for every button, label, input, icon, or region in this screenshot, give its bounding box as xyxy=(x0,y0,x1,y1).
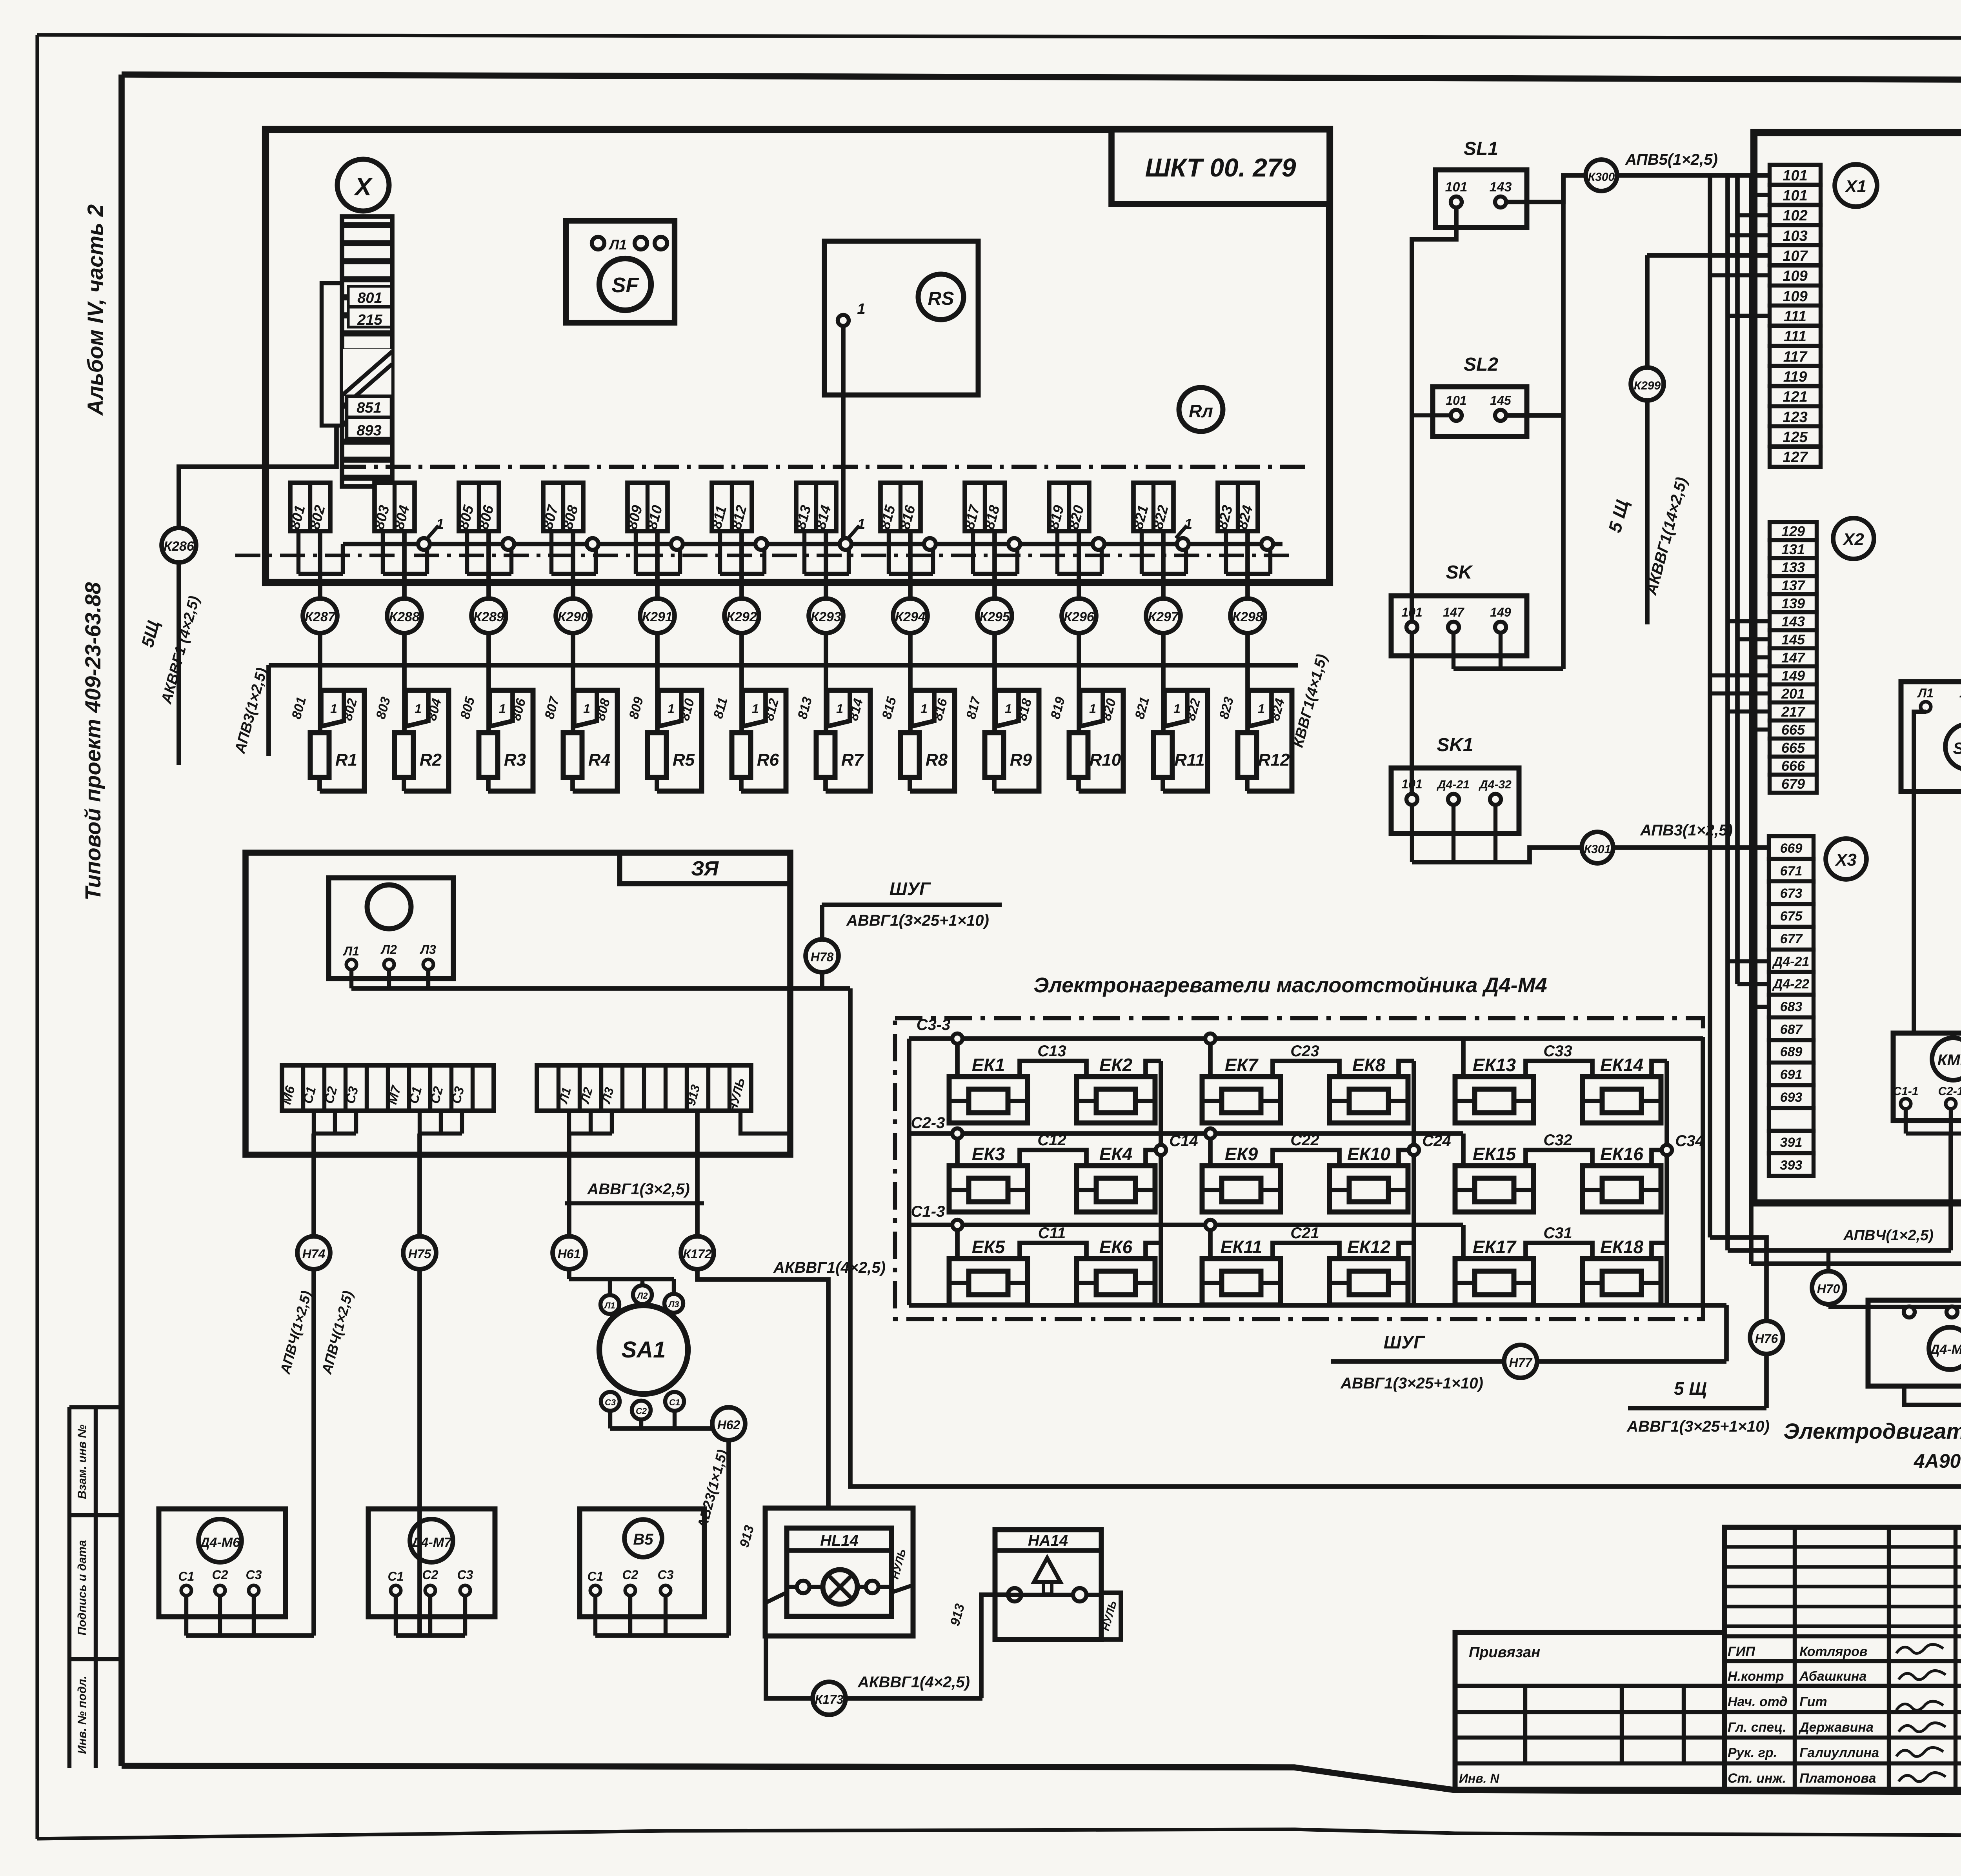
resistor unit R4 box xyxy=(573,690,617,791)
terminal pair 821/822 xyxy=(1133,483,1173,531)
svg-text:Н61: Н61 xyxy=(558,1247,581,1261)
svg-text:5 Щ: 5 Щ xyxy=(1674,1378,1707,1399)
svg-text:149: 149 xyxy=(1490,605,1511,619)
svg-text:С3-3: С3-3 xyxy=(917,1016,951,1034)
resistor R4 xyxy=(563,733,582,777)
svg-text:SL2: SL2 xyxy=(1464,354,1498,375)
svg-text:111: 111 xyxy=(1784,328,1806,345)
star link row 3 group 1 xyxy=(1146,1243,1161,1259)
svg-text:К296: К296 xyxy=(1064,610,1095,624)
svg-text:R12: R12 xyxy=(1258,750,1290,770)
heater input tap EK13 xyxy=(1461,1039,1466,1077)
terminal strip Л1Л2Л3/913/НУЛЬ in ЗЯ xyxy=(537,1065,751,1111)
svg-text:R7: R7 xyxy=(841,750,864,770)
wire pair 821 to relay K297 xyxy=(1161,531,1166,599)
svg-text:669: 669 xyxy=(1780,841,1803,856)
border frame xyxy=(37,35,1961,39)
svg-text:Д4-21: Д4-21 xyxy=(1772,954,1810,969)
star point С14 xyxy=(1159,1061,1163,1305)
svg-text:ЕК15: ЕК15 xyxy=(1473,1144,1517,1164)
heater bus left rail xyxy=(907,1039,911,1305)
wire SL2-145 to rail xyxy=(1506,413,1563,418)
terminal strip X1 xyxy=(1770,165,1821,185)
svg-text:Rл: Rл xyxy=(1189,401,1213,421)
relay RS box xyxy=(824,241,978,395)
resistor unit R2 box xyxy=(404,690,449,791)
svg-text:119: 119 xyxy=(1783,369,1807,385)
svg-text:ЕК5: ЕК5 xyxy=(972,1237,1006,1257)
designator X2 xyxy=(1833,518,1874,559)
svg-text:Л2: Л2 xyxy=(636,1291,648,1301)
terminal pair 801/802 xyxy=(290,483,330,531)
svg-text:Электродвигатели: Электродвигатели xyxy=(1784,1419,1961,1443)
svg-text:893: 893 xyxy=(357,422,381,439)
wire K287 to R1 xyxy=(318,633,322,733)
wires Л strip to Н61 xyxy=(567,1111,571,1134)
cable ШУГ with marker Н77 xyxy=(1331,1359,1726,1364)
svg-text:К300: К300 xyxy=(1588,171,1615,184)
series link С12 xyxy=(1020,1150,1086,1166)
right rail of SL column xyxy=(1561,175,1566,669)
bus of ШКТ terminal row xyxy=(343,542,1282,546)
svg-text:101: 101 xyxy=(1783,167,1807,184)
svg-text:Н70: Н70 xyxy=(1817,1282,1840,1296)
svg-text:Электронагреватели маслоотст: Электронагреватели маслоотстойника Д4-М4 xyxy=(1033,973,1547,997)
svg-text:Типовой проект 409-23-63.88: Типовой проект 409-23-63.88 xyxy=(80,582,105,901)
svg-text:147: 147 xyxy=(1443,605,1465,619)
svg-text:С1: С1 xyxy=(178,1569,195,1583)
marker Н78 xyxy=(820,905,824,988)
terminal pair 811/812 xyxy=(712,483,752,531)
svg-text:ЕК6: ЕК6 xyxy=(1099,1237,1133,1257)
svg-text:АВВГ1(3×2,5): АВВГ1(3×2,5) xyxy=(587,1181,689,1198)
svg-text:127: 127 xyxy=(1783,449,1808,466)
cable marker K286 xyxy=(162,528,196,562)
wire 913 to К172 xyxy=(695,1111,700,1236)
svg-text:R1: R1 xyxy=(335,750,357,770)
svg-text:129: 129 xyxy=(1781,523,1805,539)
svg-text:1: 1 xyxy=(499,702,506,716)
svg-text:Н78: Н78 xyxy=(811,950,834,964)
heater input tap EK3 xyxy=(955,1134,960,1166)
svg-text:125: 125 xyxy=(1783,429,1808,446)
wire pair 803 to relay K288 xyxy=(402,531,407,599)
svg-text:ЗЯ: ЗЯ xyxy=(691,857,719,880)
resistor unit R1 box xyxy=(320,690,364,791)
resistor Rл designator xyxy=(1179,388,1223,431)
svg-text:С2: С2 xyxy=(212,1568,228,1582)
resistor unit R9 box xyxy=(994,690,1039,791)
heater dash-dot boundary xyxy=(895,1018,1703,1319)
svg-text:К289: К289 xyxy=(473,610,504,624)
svg-text:Н75: Н75 xyxy=(408,1247,432,1261)
wire K292 to R6 xyxy=(739,633,744,733)
svg-text:С2-1: С2-1 xyxy=(1938,1085,1961,1098)
label box ЗЯ xyxy=(620,853,790,884)
terminal strip X3 xyxy=(1769,836,1814,859)
svg-text:С13: С13 xyxy=(1037,1043,1066,1060)
switch SA1 top terminals xyxy=(567,1270,571,1279)
relay K289 xyxy=(471,599,506,633)
svg-text:137: 137 xyxy=(1781,577,1806,593)
terminal pair 817/818 xyxy=(965,483,1005,531)
resistor unit R3 box xyxy=(488,690,533,791)
svg-text:683: 683 xyxy=(1780,999,1803,1014)
svg-text:RS: RS xyxy=(928,288,954,309)
svg-text:SK: SK xyxy=(1446,562,1473,583)
heater EK17 xyxy=(1455,1259,1534,1305)
wire K294 to R8 xyxy=(908,633,913,733)
svg-text:С11: С11 xyxy=(1038,1225,1066,1242)
resistor R5 xyxy=(648,733,666,777)
breaker SF xyxy=(599,258,651,310)
bus node 6 xyxy=(840,538,851,550)
heater EK12 xyxy=(1330,1259,1408,1305)
svg-text:X2: X2 xyxy=(1842,530,1864,549)
motor Д4-М2 box xyxy=(1868,1300,1961,1386)
star point С24 xyxy=(1412,1061,1416,1305)
svg-text:С22: С22 xyxy=(1290,1132,1319,1149)
svg-text:Д4-22: Д4-22 xyxy=(1772,977,1810,992)
star link row 3 group 2 xyxy=(1399,1243,1414,1259)
wire SL1-143 to К300 xyxy=(1506,175,1585,202)
terminal strip X2 xyxy=(1770,522,1817,540)
resistor R1 xyxy=(310,733,329,777)
bell НА14 symbol xyxy=(1034,1558,1061,1582)
switch SA1 bottom terminals xyxy=(601,1392,620,1411)
svg-text:SL1: SL1 xyxy=(1464,138,1498,159)
svg-text:143: 143 xyxy=(1781,613,1805,630)
bus node 2 xyxy=(502,538,514,550)
wires to motor Д4-М2 xyxy=(1828,1305,1961,1309)
resistor R6 xyxy=(732,733,751,777)
terminal pair 803/804 xyxy=(375,483,415,531)
svg-text:Гл. спец.: Гл. спец. xyxy=(1728,1720,1786,1735)
svg-text:393: 393 xyxy=(1780,1158,1803,1173)
heater EK16 xyxy=(1583,1166,1661,1212)
svg-text:К301: К301 xyxy=(1584,843,1611,856)
svg-text:851: 851 xyxy=(357,400,381,416)
svg-text:ЕК14: ЕК14 xyxy=(1600,1055,1643,1075)
svg-text:R10: R10 xyxy=(1090,750,1121,770)
terminal pair 821/822 stubs xyxy=(1140,531,1144,574)
bundle stubs to X2 xyxy=(1728,619,1770,623)
heater input tap EK1 xyxy=(955,1039,960,1077)
designator X3 xyxy=(1826,839,1866,879)
device with lamps in ЗЯ xyxy=(329,878,453,979)
terminal pair 815/816 xyxy=(880,483,920,531)
bus node 9 xyxy=(1093,538,1104,550)
wire bus to Н78 and trunk xyxy=(351,986,850,991)
svg-text:С32: С32 xyxy=(1543,1132,1572,1149)
cabinet ШКТ 00.279 enclosure xyxy=(266,129,1330,582)
connector X designator circle xyxy=(337,159,389,211)
svg-text:1: 1 xyxy=(1173,702,1181,716)
svg-text:R6: R6 xyxy=(757,750,779,770)
terminal strip М6/М7 in ЗЯ xyxy=(282,1065,494,1111)
title block attachment table xyxy=(1455,1632,1725,1789)
svg-text:АКВВГ1(4×2,5): АКВВГ1(4×2,5) xyxy=(857,1674,970,1691)
svg-text:SF1: SF1 xyxy=(1953,739,1961,757)
heater input tap EK9 xyxy=(1208,1134,1213,1166)
wire bundle to X strips xyxy=(1708,175,1712,1237)
svg-text:С1: С1 xyxy=(588,1569,604,1583)
cable 5Щ АКВВГ1(4x2,5) going down xyxy=(176,562,181,765)
svg-text:Л1: Л1 xyxy=(604,1301,615,1310)
svg-text:149: 149 xyxy=(1781,668,1805,684)
svg-text:С1: С1 xyxy=(388,1569,404,1583)
svg-text:АВВГ1(3×25+1×10): АВВГ1(3×25+1×10) xyxy=(846,912,989,929)
resistor R12 xyxy=(1238,733,1257,777)
svg-text:679: 679 xyxy=(1781,776,1805,792)
svg-text:Рук. гр.: Рук. гр. xyxy=(1728,1745,1777,1760)
svg-text:665: 665 xyxy=(1781,740,1805,756)
svg-text:К293: К293 xyxy=(811,610,841,624)
heater EK6 xyxy=(1077,1259,1155,1305)
resistor R3 xyxy=(479,733,498,777)
cable 5Щ АКВВГ1(14x2,5) with marker К299 xyxy=(1647,253,1770,258)
svg-text:С1-1: С1-1 xyxy=(1893,1085,1918,1098)
svg-text:677: 677 xyxy=(1780,932,1803,946)
wire 101 rail xyxy=(1412,207,1456,799)
heater EK2 xyxy=(1077,1077,1155,1123)
svg-text:1: 1 xyxy=(920,702,928,716)
cable ШУГ label xyxy=(822,903,1002,907)
svg-text:С34: С34 xyxy=(1675,1132,1704,1150)
terminal pair 801/802 stubs xyxy=(297,531,300,574)
label box ШКТ 00. 279 xyxy=(1111,129,1330,204)
svg-text:1: 1 xyxy=(857,301,865,317)
heater input tap EK17 xyxy=(1461,1225,1466,1259)
wire pair 807 to relay K290 xyxy=(571,531,575,599)
svg-text:Котляров: Котляров xyxy=(1799,1644,1867,1659)
bus node 4 xyxy=(671,538,683,550)
svg-text:215: 215 xyxy=(357,312,382,328)
wire pair 805 to relay K289 xyxy=(486,531,491,599)
wire K289 to R3 xyxy=(486,633,491,733)
svg-text:С24: С24 xyxy=(1422,1132,1451,1150)
svg-text:Д4-М2: Д4-М2 xyxy=(1929,1342,1961,1357)
svg-text:1: 1 xyxy=(415,702,422,716)
svg-text:R4: R4 xyxy=(588,750,610,770)
svg-text:101: 101 xyxy=(1446,393,1466,408)
series link С22 xyxy=(1273,1150,1339,1166)
wire K288 to R2 xyxy=(402,633,407,733)
svg-text:1: 1 xyxy=(330,702,337,716)
svg-text:133: 133 xyxy=(1781,559,1805,575)
svg-text:1: 1 xyxy=(752,702,759,716)
svg-text:АПВ3(1×2,5): АПВ3(1×2,5) xyxy=(1640,822,1733,839)
svg-text:R9: R9 xyxy=(1010,750,1032,770)
svg-text:675: 675 xyxy=(1780,909,1803,924)
resistor unit R12 box xyxy=(1247,690,1292,791)
svg-text:АПВЧ(1×2,5): АПВЧ(1×2,5) xyxy=(1843,1227,1934,1244)
terminal pair 809/810 xyxy=(628,483,668,531)
relay K297 xyxy=(1146,599,1181,633)
relay K294 xyxy=(893,599,928,633)
terminal pair 817/818 stubs xyxy=(971,531,975,574)
svg-text:ШКТ 00. 279: ШКТ 00. 279 xyxy=(1145,153,1296,182)
terminal pair 815/816 stubs xyxy=(887,531,891,574)
svg-text:К287: К287 xyxy=(305,610,336,624)
svg-text:Инв. N: Инв. N xyxy=(1459,1771,1499,1785)
svg-text:201: 201 xyxy=(1781,686,1805,702)
resistor unit R11 box xyxy=(1163,690,1208,791)
wires device to bus xyxy=(349,970,353,988)
series link С32 xyxy=(1526,1150,1592,1166)
cable 5Щ with marker Н76 xyxy=(1710,1237,1766,1408)
wires Д4-М7 to Н75 xyxy=(394,1596,398,1636)
resistor unit R6 box xyxy=(741,690,786,791)
bundle stubs to X1 xyxy=(1751,193,1770,197)
svg-text:ЕК7: ЕК7 xyxy=(1225,1055,1259,1075)
heater EK7 xyxy=(1202,1077,1281,1123)
svg-text:691: 691 xyxy=(1780,1067,1803,1082)
svg-text:С1-3: С1-3 xyxy=(911,1203,945,1220)
terminal row dash-dot boundary xyxy=(296,465,1312,469)
resistor unit R7 box xyxy=(826,690,870,791)
svg-text:1: 1 xyxy=(583,702,590,716)
relay K287 xyxy=(303,599,337,633)
svg-text:Л3: Л3 xyxy=(420,943,436,957)
breaker SF1 box xyxy=(1901,682,1961,792)
sidebar stamp table xyxy=(67,1407,71,1768)
svg-text:К298: К298 xyxy=(1232,610,1263,624)
heater return bus xyxy=(909,1303,1726,1308)
wires SK1 to К301 xyxy=(1410,805,1414,862)
svg-text:147: 147 xyxy=(1781,650,1806,666)
svg-text:1: 1 xyxy=(1089,702,1096,716)
terminal pair 823/824 xyxy=(1218,483,1258,531)
svg-text:С3: С3 xyxy=(658,1568,674,1582)
svg-text:Подпись и дата: Подпись и дата xyxy=(76,1540,89,1635)
heater EK1 xyxy=(949,1077,1028,1123)
wire RS-1 to bus xyxy=(841,326,846,544)
svg-text:HL14: HL14 xyxy=(820,1532,859,1549)
svg-text:Л2: Л2 xyxy=(380,943,397,957)
svg-text:131: 131 xyxy=(1781,541,1805,557)
svg-text:С12: С12 xyxy=(1037,1132,1066,1149)
svg-text:ЕК2: ЕК2 xyxy=(1099,1055,1133,1075)
terminal 1 of RS xyxy=(838,315,849,326)
svg-text:671: 671 xyxy=(1780,864,1803,879)
wire pair 809 to relay K291 xyxy=(655,531,660,599)
wire pair 819 to relay K296 xyxy=(1077,531,1081,599)
star link row 3 group 3 xyxy=(1652,1243,1667,1259)
marker К300 xyxy=(1586,160,1617,191)
wire K297 to R11 xyxy=(1161,633,1166,733)
wire K290 to R4 xyxy=(571,633,575,733)
svg-text:КМ1: КМ1 xyxy=(1937,1052,1961,1069)
star link row 2 group 2 xyxy=(1399,1150,1414,1166)
cable АПВЧ(1x2,5) to Д4-М3 xyxy=(1751,1261,1961,1266)
svg-text:Л1: Л1 xyxy=(608,237,627,253)
svg-text:Д4-М7: Д4-М7 xyxy=(410,1535,452,1550)
relay K293 xyxy=(809,599,843,633)
svg-text:102: 102 xyxy=(1783,207,1807,224)
svg-text:Альбом IV, часть 2: Альбом IV, часть 2 xyxy=(83,204,107,416)
motor Д4-М2 base xyxy=(1904,1386,1961,1405)
svg-text:Взам. инв №: Взам. инв № xyxy=(76,1425,89,1499)
title block signatures table xyxy=(1725,1527,1961,1789)
svg-text:X1: X1 xyxy=(1844,177,1866,196)
resistor R8 xyxy=(900,733,919,777)
svg-text:1: 1 xyxy=(857,516,865,532)
feeder trunk to heaters xyxy=(850,988,1961,1487)
wire К172 to HL14 xyxy=(697,1270,828,1508)
svg-text:143: 143 xyxy=(1490,180,1512,195)
svg-text:665: 665 xyxy=(1781,722,1805,738)
svg-text:Нач. отд: Нач. отд xyxy=(1728,1694,1787,1709)
wire K296 to R10 xyxy=(1077,633,1081,733)
svg-text:С23: С23 xyxy=(1290,1043,1319,1060)
resistor R10 xyxy=(1069,733,1088,777)
svg-text:R5: R5 xyxy=(673,750,695,770)
heater input tap EK5 xyxy=(955,1225,960,1259)
wire pair 817 to relay K295 xyxy=(992,531,997,599)
svg-text:К299: К299 xyxy=(1634,379,1661,392)
svg-text:Д4-32: Д4-32 xyxy=(1478,778,1512,791)
svg-text:X: X xyxy=(354,173,373,201)
motor Д4-М7 box xyxy=(368,1509,495,1617)
svg-text:109: 109 xyxy=(1783,288,1807,305)
cable АПВЧ(1x2,5) to Д4-М2 xyxy=(1728,1248,1951,1253)
svg-text:4А90 L 4 У3: 4А90 L 4 У3 xyxy=(1914,1450,1961,1472)
svg-text:R2: R2 xyxy=(420,750,442,770)
marker К173 xyxy=(813,1682,846,1715)
svg-text:АПВ5(1×2,5): АПВ5(1×2,5) xyxy=(1625,151,1718,168)
svg-text:АВВГ1(3×25+1×10): АВВГ1(3×25+1×10) xyxy=(1626,1418,1770,1435)
lamp HL14 symbol xyxy=(787,1585,891,1589)
bus node 8 xyxy=(1008,538,1020,550)
svg-text:ЕК16: ЕК16 xyxy=(1600,1144,1644,1164)
cable АПВ5(1x2,5) xyxy=(1617,173,1770,178)
svg-text:1: 1 xyxy=(836,702,843,716)
svg-text:ШУГ: ШУГ xyxy=(1384,1332,1425,1352)
svg-text:С31: С31 xyxy=(1543,1225,1572,1242)
wire HL14 to К173 xyxy=(766,1636,813,1698)
svg-text:ЕК9: ЕК9 xyxy=(1225,1144,1258,1164)
svg-text:101: 101 xyxy=(1445,180,1468,195)
svg-text:101: 101 xyxy=(1401,605,1422,619)
svg-text:111: 111 xyxy=(1784,308,1806,325)
svg-text:Инв. № подл.: Инв. № подл. xyxy=(76,1676,89,1754)
series link С13 xyxy=(1020,1061,1086,1077)
svg-text:К295: К295 xyxy=(979,610,1010,624)
svg-text:В5: В5 xyxy=(633,1531,653,1548)
svg-text:X3: X3 xyxy=(1834,850,1857,870)
marker Н75 xyxy=(403,1236,436,1269)
bus node 11 xyxy=(1261,538,1273,550)
svg-text:391: 391 xyxy=(1780,1135,1803,1150)
wire pair 811 to relay K292 xyxy=(739,531,744,599)
cable АПВ3(1x2,5) feeder line xyxy=(269,663,1298,668)
svg-text:217: 217 xyxy=(1781,704,1806,720)
svg-text:1: 1 xyxy=(1005,702,1012,716)
svg-text:С3: С3 xyxy=(605,1397,616,1407)
breaker SF box xyxy=(566,221,675,323)
signature scribbles xyxy=(1896,1644,1943,1653)
heater input tap EK7 xyxy=(1208,1039,1213,1077)
svg-text:Привязан: Привязан xyxy=(1469,1644,1540,1661)
svg-text:123: 123 xyxy=(1783,409,1807,426)
svg-text:С33: С33 xyxy=(1543,1043,1572,1060)
svg-text:С2-3: С2-3 xyxy=(911,1114,945,1132)
wire K295 to R9 xyxy=(992,633,997,733)
terminal pair 819/820 xyxy=(1049,483,1089,531)
svg-text:R3: R3 xyxy=(504,750,526,770)
svg-text:801: 801 xyxy=(357,290,382,306)
